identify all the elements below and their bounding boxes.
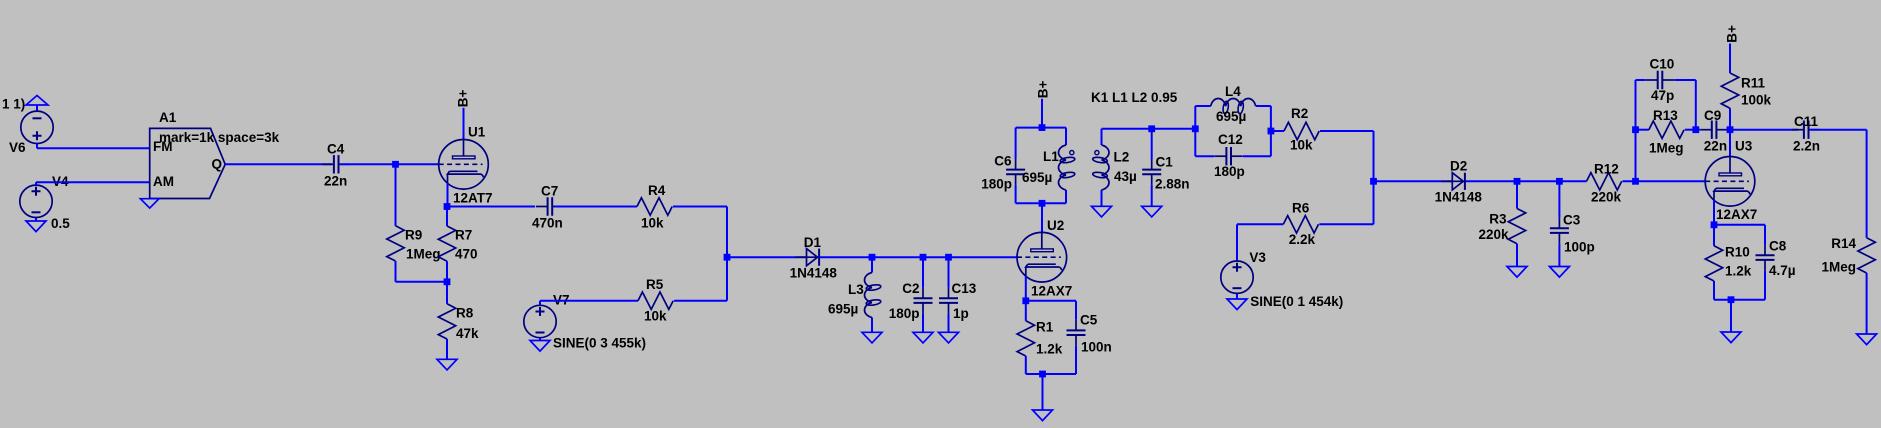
wire R14 to ground <box>1866 273 1868 334</box>
svg-text:180p: 180p <box>981 177 1012 192</box>
node R3 junction <box>1514 178 1521 185</box>
ground below V3 <box>1227 293 1247 309</box>
svg-text:D2: D2 <box>1450 159 1467 174</box>
svg-text:L2: L2 <box>1114 150 1130 165</box>
wire cathode to C7 <box>447 206 535 208</box>
svg-text:47p: 47p <box>1651 88 1674 103</box>
svg-text:180p: 180p <box>1214 164 1245 179</box>
node L4 block left junction <box>1192 125 1199 132</box>
svg-text:U1: U1 <box>468 125 486 140</box>
svg-text:R6: R6 <box>1292 201 1310 216</box>
triode U2 <box>1017 218 1072 298</box>
flipped ground above V6 <box>26 96 48 113</box>
wire C11 to R14 <box>1810 130 1866 238</box>
svg-text:C2: C2 <box>902 281 919 296</box>
wire D2 to R12 <box>1466 180 1587 182</box>
inductor L4 <box>1195 84 1271 124</box>
node C13 junction <box>945 254 952 261</box>
wire L3 to ground <box>871 318 873 333</box>
wire V4 to AM input <box>36 182 150 185</box>
svg-text:R5: R5 <box>646 277 664 292</box>
node U1 cathode junction <box>444 203 451 210</box>
resistor R10 <box>1705 225 1751 281</box>
capacitor C9 <box>1696 108 1730 154</box>
ground below U3 cathode network <box>1721 332 1741 343</box>
resistor R7 <box>438 207 477 262</box>
wire L4 block right rail <box>1270 106 1272 156</box>
svg-text:180p: 180p <box>889 306 920 321</box>
wire C2 to ground <box>922 314 924 333</box>
svg-text:C3: C3 <box>1563 213 1581 228</box>
node U3 plate junction <box>1727 126 1734 133</box>
svg-text:C6: C6 <box>994 154 1012 169</box>
svg-text:12AX7: 12AX7 <box>1716 207 1757 222</box>
node tank top junction <box>1039 124 1046 131</box>
wire R9 to cathode-net <box>396 261 448 282</box>
wire R4 to summing node <box>673 207 727 258</box>
svg-text:C10: C10 <box>1650 57 1675 72</box>
inductor L3 <box>828 257 881 317</box>
svg-text:SINE(0 3 455k): SINE(0 3 455k) <box>553 336 646 351</box>
svg-text:C7: C7 <box>541 184 558 199</box>
wire R10 bottom <box>1714 281 1765 300</box>
node R1-C5 bottom junction <box>1039 371 1046 378</box>
svg-text:C4: C4 <box>327 142 345 157</box>
svg-text:695µ: 695µ <box>1216 109 1246 124</box>
wire B+ to R11 <box>1729 44 1731 74</box>
wire C3 to ground <box>1558 244 1560 267</box>
node tank bottom junction <box>1039 200 1046 207</box>
capacitor C12 <box>1195 132 1271 179</box>
ground below L3 <box>862 332 882 343</box>
svg-text:43µ: 43µ <box>1114 169 1137 184</box>
wire R7 bottom junction <box>446 261 448 282</box>
wire tank top rail <box>1016 127 1066 129</box>
wire junction to U1 grid <box>396 163 439 165</box>
svg-text:R10: R10 <box>1725 245 1750 260</box>
wire R1 bottom <box>1026 356 1076 374</box>
wire U1 cathode down <box>447 183 449 206</box>
svg-text:220k: 220k <box>1591 190 1622 205</box>
node C3 junction <box>1556 178 1563 185</box>
svg-text:470: 470 <box>455 247 478 262</box>
svg-text:1Meg: 1Meg <box>1649 141 1684 156</box>
resistor R2 <box>1271 106 1319 153</box>
modulator A1 <box>150 110 280 199</box>
svg-text:C9: C9 <box>1704 108 1721 123</box>
svg-text:2.2n: 2.2n <box>1793 139 1820 154</box>
SPICE directive K1 coupling <box>1091 90 1178 105</box>
resistor R9 <box>387 226 441 262</box>
svg-text:2.2k: 2.2k <box>1289 232 1316 247</box>
ground below C1 <box>1142 206 1162 217</box>
capacitor C13 <box>939 257 977 321</box>
wire R6 to detector node <box>1319 181 1373 224</box>
resistor R4 <box>637 183 672 231</box>
net label B+ above tank <box>1035 81 1050 99</box>
svg-text:Q: Q <box>212 157 223 172</box>
node U3 cathode junction <box>1711 221 1718 228</box>
voltage source V3 <box>1221 224 1343 309</box>
capacitor C1 <box>1142 129 1189 207</box>
svg-text:1Meg: 1Meg <box>1821 259 1856 274</box>
svg-text:1p: 1p <box>953 306 969 321</box>
node detector junction <box>1370 178 1377 185</box>
resistor R14 <box>1821 236 1875 274</box>
svg-text:695µ: 695µ <box>1022 170 1052 185</box>
svg-text:K1 L1 L2 0.95: K1 L1 L2 0.95 <box>1091 90 1178 105</box>
net label B+ above R11 <box>1724 25 1739 43</box>
resistor R12 <box>1587 162 1622 205</box>
wire Q output to C4 <box>225 163 332 165</box>
wire R11 to plate node <box>1729 108 1731 130</box>
svg-text:U2: U2 <box>1047 218 1064 233</box>
svg-text:R7: R7 <box>455 228 472 243</box>
svg-text:100n: 100n <box>1081 340 1112 355</box>
svg-text:V3: V3 <box>1249 250 1266 265</box>
svg-text:C13: C13 <box>952 281 977 296</box>
node U3 grid junction <box>1632 178 1639 185</box>
svg-text:12AX7: 12AX7 <box>1031 283 1072 298</box>
svg-text:0.5: 0.5 <box>51 216 70 231</box>
svg-text:R3: R3 <box>1489 212 1507 227</box>
svg-text:AM: AM <box>153 174 174 189</box>
node grid U1 junction <box>392 161 399 168</box>
svg-text:C11: C11 <box>1794 114 1819 129</box>
triode U1 <box>439 125 493 206</box>
svg-text:100k: 100k <box>1741 93 1772 108</box>
wire cathode rail to C5 <box>1026 300 1076 302</box>
wire V7 to R5 <box>540 301 638 306</box>
ground below C13 <box>939 332 959 343</box>
wire C13 to ground <box>948 314 950 333</box>
svg-text:SINE(0 1 454k): SINE(0 1 454k) <box>1250 294 1343 309</box>
capacitor C7 <box>532 184 564 231</box>
resistor R11 <box>1721 73 1771 108</box>
capacitor C8 <box>1756 225 1796 300</box>
wire tank bottom rail <box>1016 202 1066 204</box>
svg-text:R12: R12 <box>1594 162 1619 177</box>
node R13 left junction <box>1632 126 1639 133</box>
wire to ground below R10 <box>1730 300 1732 332</box>
svg-text:1Meg: 1Meg <box>406 247 441 262</box>
capacitor C4 <box>322 142 350 189</box>
svg-text:10k: 10k <box>641 216 664 231</box>
svg-text:L4: L4 <box>1225 84 1241 99</box>
node L3 junction <box>869 254 876 261</box>
svg-text:V6: V6 <box>9 140 26 155</box>
capacitor C6 <box>981 128 1025 204</box>
node R10-C8 bottom junction <box>1728 296 1735 303</box>
wire R13 to right junction <box>1685 129 1696 131</box>
node C1 junction <box>1148 125 1155 132</box>
wire feedback left rail <box>1635 80 1637 181</box>
SPICE directive text "1 1)" <box>2 97 25 112</box>
svg-text:47k: 47k <box>456 326 479 341</box>
resistor R5 <box>638 277 673 324</box>
svg-text:A1: A1 <box>159 110 177 125</box>
capacitor C5 <box>1067 301 1112 374</box>
capacitor C11 <box>1792 114 1820 154</box>
svg-text:B+: B+ <box>455 89 470 107</box>
voltage source V7 <box>524 293 646 351</box>
svg-text:R11: R11 <box>1741 76 1766 91</box>
wire tank to U2 plate <box>1041 203 1043 233</box>
node U2 cathode junction <box>1022 297 1029 304</box>
ground below L2 <box>1092 206 1112 217</box>
wire C7 to R4 <box>554 206 637 208</box>
ground below C3 <box>1549 267 1569 278</box>
svg-text:C1: C1 <box>1156 155 1174 170</box>
node C2 junction <box>920 254 927 261</box>
inductor L2 <box>1092 129 1136 207</box>
ground below V7 <box>530 338 550 351</box>
ground below U2 cathode network <box>1033 410 1053 421</box>
wire node to D1 <box>727 256 807 258</box>
wire plate node to C11 <box>1730 129 1798 131</box>
wire junction down to R9 <box>395 164 397 226</box>
svg-text:1.2k: 1.2k <box>1036 342 1063 357</box>
node summing junction <box>724 254 731 261</box>
svg-text:R14: R14 <box>1831 236 1856 251</box>
svg-text:B+: B+ <box>1724 25 1739 43</box>
wire R12 to U3 grid <box>1623 180 1706 182</box>
node L4 block right junction <box>1268 128 1275 135</box>
svg-text:C12: C12 <box>1218 132 1243 147</box>
diode D1 <box>790 235 838 280</box>
node R7-R8 junction <box>444 278 451 285</box>
wire feedback right rail <box>1695 80 1697 130</box>
svg-text:C8: C8 <box>1769 239 1787 254</box>
svg-text:2.88n: 2.88n <box>1155 177 1190 192</box>
svg-text:L1: L1 <box>1043 149 1059 164</box>
svg-text:4.7µ: 4.7µ <box>1769 263 1796 278</box>
wire B+ to U1 plate <box>463 108 465 140</box>
svg-text:U3: U3 <box>1735 139 1753 154</box>
svg-text:R8: R8 <box>456 306 474 321</box>
ground below R3 <box>1507 267 1527 278</box>
wire U2 cathode down <box>1025 276 1027 301</box>
wire plate node to U3 <box>1729 130 1731 157</box>
svg-text:10k: 10k <box>644 309 667 324</box>
svg-text:1N4148: 1N4148 <box>1435 190 1483 205</box>
resistor R3 <box>1478 181 1525 243</box>
svg-text:C5: C5 <box>1080 313 1098 328</box>
resistor R1 <box>1017 301 1063 357</box>
svg-text:100p: 100p <box>1564 240 1595 255</box>
svg-text:12AT7: 12AT7 <box>453 191 493 206</box>
voltage source V6 <box>9 111 53 155</box>
voltage source V4 <box>20 174 70 231</box>
svg-text:22n: 22n <box>324 174 347 189</box>
wire cathode rail to C8 <box>1714 224 1765 226</box>
resistor R13 <box>1636 108 1685 156</box>
svg-text:1 1): 1 1) <box>2 97 25 112</box>
diode D2 <box>1435 159 1483 205</box>
svg-text:R2: R2 <box>1291 106 1308 121</box>
wire V6 to FM input <box>37 144 150 149</box>
ground below C2 <box>913 332 933 343</box>
triode U3 <box>1705 139 1757 223</box>
net label B+ above U1 <box>455 89 470 107</box>
inductor L1 <box>1022 128 1075 204</box>
resistor R8 <box>438 282 479 341</box>
wire R8 to ground <box>446 339 448 359</box>
svg-text:R13: R13 <box>1653 108 1678 123</box>
wire R3 to ground <box>1516 244 1518 267</box>
resistor R6 <box>1237 201 1319 248</box>
node R13-C9 junction <box>1692 126 1699 133</box>
svg-text:D1: D1 <box>804 235 822 250</box>
ground below V4 <box>26 218 46 232</box>
wire B+ down <box>1041 99 1043 128</box>
svg-text:R4: R4 <box>648 183 666 198</box>
svg-text:1N4148: 1N4148 <box>790 265 838 280</box>
svg-text:695µ: 695µ <box>828 302 858 317</box>
svg-text:10k: 10k <box>1290 138 1313 153</box>
ground below R14 <box>1857 334 1877 345</box>
wire to ground below R1 <box>1042 374 1044 410</box>
svg-text:1.2k: 1.2k <box>1725 264 1752 279</box>
ground below R8 <box>437 359 457 370</box>
svg-text:R1: R1 <box>1036 320 1054 335</box>
wire D1 to U2 grid <box>819 256 1017 258</box>
wire C4 to grid node <box>340 163 395 165</box>
ground at A1 bottom-left <box>140 199 159 208</box>
wire R2 to detector node <box>1320 131 1374 181</box>
svg-text:mark=1k space=3k: mark=1k space=3k <box>159 130 280 145</box>
capacitor C10 <box>1636 57 1696 104</box>
wire U3 cathode down <box>1713 200 1715 225</box>
wire node to D2 <box>1374 180 1453 182</box>
svg-text:R9: R9 <box>405 228 422 243</box>
wire L2 top rail <box>1102 128 1196 130</box>
svg-text:B+: B+ <box>1035 81 1050 99</box>
svg-text:22n: 22n <box>1704 139 1727 154</box>
capacitor C2 <box>889 257 933 321</box>
wire L4 block left rail <box>1194 106 1196 156</box>
svg-text:L3: L3 <box>848 282 864 297</box>
svg-text:220k: 220k <box>1478 227 1509 242</box>
svg-text:FM: FM <box>153 139 173 154</box>
svg-text:470n: 470n <box>532 216 563 231</box>
capacitor C3 <box>1550 181 1595 254</box>
wire R5 to summing node <box>674 257 727 301</box>
